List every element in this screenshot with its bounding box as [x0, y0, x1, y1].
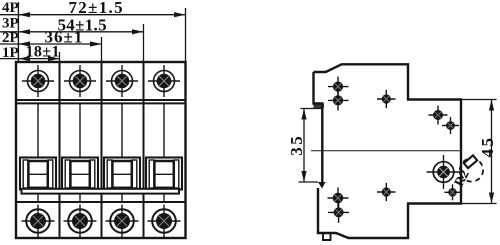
dimension 45 extension bottom — [461, 203, 497, 205]
top terminal band bottom line — [16, 99, 186, 101]
toggle switch 3 — [104, 158, 140, 190]
pole center line 4 — [163, 103, 165, 157]
clip tab mark — [464, 155, 477, 168]
pole boundary line 3 — [143, 62, 145, 238]
extension line pole4 right — [185, 8, 187, 62]
toggle switch 2 — [62, 158, 98, 190]
bottom terminal screw 2 — [64, 205, 97, 238]
dimension line 18 — [0, 58, 60, 60]
top face line — [16, 102, 186, 104]
pole center line 1 — [37, 103, 39, 157]
toggle switch 1 — [20, 158, 56, 190]
dimension line 35 — [303, 109, 305, 183]
pole center line 2 — [79, 103, 81, 157]
phantom circle (rail clip travel) — [460, 158, 483, 181]
top terminal screw 3 — [106, 65, 138, 97]
svg-text:35: 35 — [287, 134, 306, 156]
dimension 35 extension top — [301, 108, 323, 110]
dimension 35 extension bottom — [299, 181, 319, 183]
top terminal screw 4 — [148, 65, 180, 97]
extension line pole2 right — [101, 37, 103, 62]
breaker body outline — [16, 62, 186, 238]
side profile outline — [314, 64, 462, 238]
DIN clip top claw (hatched) — [314, 104, 325, 109]
handle tie bar — [22, 189, 180, 194]
bottom terminal screw 3 — [106, 205, 139, 238]
label column divider — [17, 2, 19, 62]
dimension 45 extension top — [461, 99, 497, 101]
dimension line 36 — [0, 43, 102, 45]
rivet G — [328, 202, 349, 223]
bottom terminal screw 4 — [148, 205, 181, 238]
rivet H — [377, 183, 396, 201]
bottom terminal screw 1 — [22, 205, 55, 238]
top terminal screw 1 — [22, 65, 54, 97]
bottom terminal band top line — [16, 201, 186, 203]
dimension line 45 — [491, 100, 493, 204]
rivet F — [328, 188, 349, 209]
extension line pole3 right — [143, 24, 145, 62]
dimension line 54 — [0, 31, 144, 33]
center line — [311, 150, 461, 152]
top terminal screw 2 — [64, 65, 96, 97]
rivet D — [429, 106, 448, 125]
pole boundary line 1 — [59, 62, 61, 238]
rivet C — [377, 90, 396, 108]
DIN clip bottom claw — [318, 182, 326, 189]
toggle switch 4 — [146, 158, 182, 190]
DIN rail screw (large) — [427, 155, 461, 189]
mounting foot — [323, 233, 331, 240]
dimension line 72 — [0, 14, 186, 16]
rivet I — [445, 184, 461, 200]
svg-text:45: 45 — [478, 136, 497, 158]
pole center line 3 — [121, 103, 123, 157]
svg-text:4P: 4P — [2, 0, 19, 16]
rivet A — [328, 77, 349, 97]
svg-text:18±1: 18±1 — [26, 44, 60, 61]
extension line pole1 right — [59, 52, 61, 62]
rivet E — [442, 117, 459, 134]
pole boundary line 2 — [101, 62, 103, 238]
rivet B — [328, 90, 349, 110]
